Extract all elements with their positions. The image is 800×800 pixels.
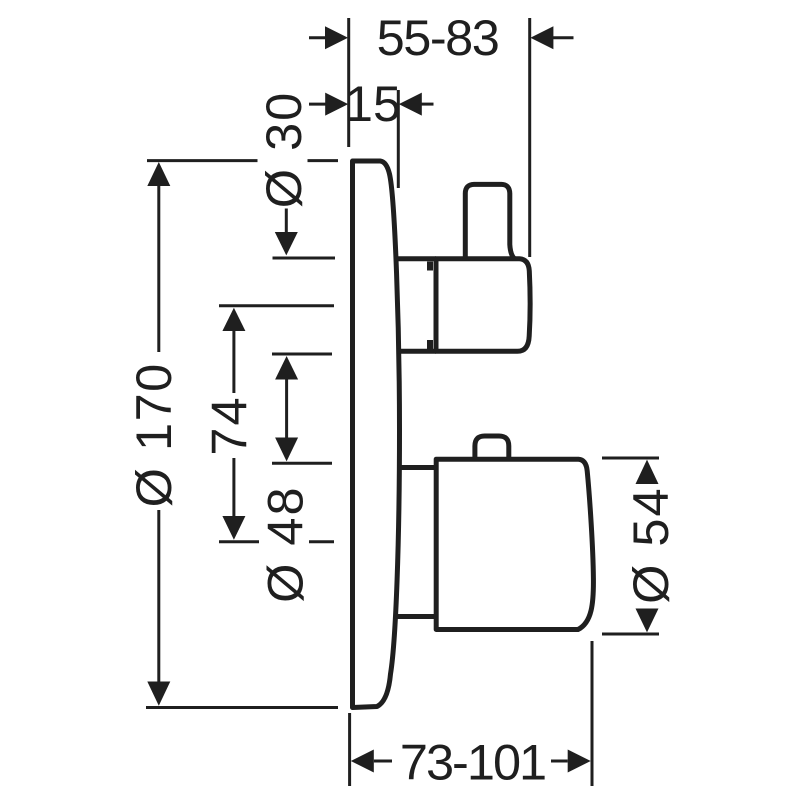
- bottom knob body: [436, 459, 593, 629]
- top valve neck (between plate and knob): [397, 259, 436, 352]
- dimension Ø48: bottom arrow: [275, 438, 298, 462]
- dimension 74: extension lines: [219, 306, 334, 542]
- dimension Ø54: top arrow: [636, 460, 659, 484]
- dimension 73-101: right arrow with tail: [551, 760, 568, 763]
- dimension Ø48: extension lines: [272, 354, 332, 463]
- dimension 55-83: right arrow with tail: [552, 36, 574, 39]
- dimension 15: left arrow with tail: [309, 103, 326, 106]
- top knob body: [436, 259, 530, 352]
- svg-text:Ø 48: Ø 48: [256, 485, 313, 602]
- dimension Ø170: dimension line: [157, 186, 160, 682]
- dimension Ø30: leader line: [285, 209, 288, 234]
- svg-text:Ø 170: Ø 170: [125, 362, 182, 507]
- top knob retaining tab lower: [427, 340, 433, 349]
- dimension 74: top arrow: [222, 308, 245, 331]
- svg-text:15: 15: [345, 75, 401, 132]
- dimension Ø30: extension line: [273, 257, 336, 260]
- dimension 74: dimension line: [232, 331, 235, 516]
- svg-text:Ø 30: Ø 30: [255, 91, 312, 208]
- dimension 55-83: left arrow with tail: [309, 36, 326, 39]
- dimension Ø54: bottom arrow: [636, 609, 659, 633]
- dimension Ø170: top arrow: [147, 162, 170, 186]
- dimension 73-101: left arrow with tail: [374, 760, 392, 763]
- escutcheon plate (side view): [353, 161, 400, 708]
- svg-text:55-83: 55-83: [377, 9, 499, 66]
- bottom valve neck (between plate and knob): [397, 468, 438, 617]
- lever handle on top knob: [465, 184, 514, 258]
- dimension Ø170: extension lines: [146, 161, 338, 708]
- dimension Ø48: dimension line: [285, 380, 288, 438]
- dimension Ø54: extension lines: [602, 458, 659, 634]
- dimension 74: bottom arrow: [222, 516, 245, 540]
- nub handle on bottom knob: [475, 436, 509, 458]
- dimension Ø30: arrow: [275, 232, 298, 255]
- dimension Ø48: top arrow: [275, 356, 298, 380]
- dimension 15: right arrow with tail: [422, 103, 434, 106]
- dimension 15: extension line: [397, 90, 400, 188]
- svg-text:Ø 54: Ø 54: [622, 486, 679, 603]
- svg-text:74: 74: [201, 395, 258, 455]
- top knob retaining tab upper: [427, 262, 433, 271]
- dimension 73-101: extension lines: [350, 641, 592, 786]
- dimension 55-83: extension lines: [349, 18, 530, 257]
- dimension Ø170: bottom arrow: [147, 682, 170, 706]
- svg-text:73-101: 73-101: [400, 733, 545, 790]
